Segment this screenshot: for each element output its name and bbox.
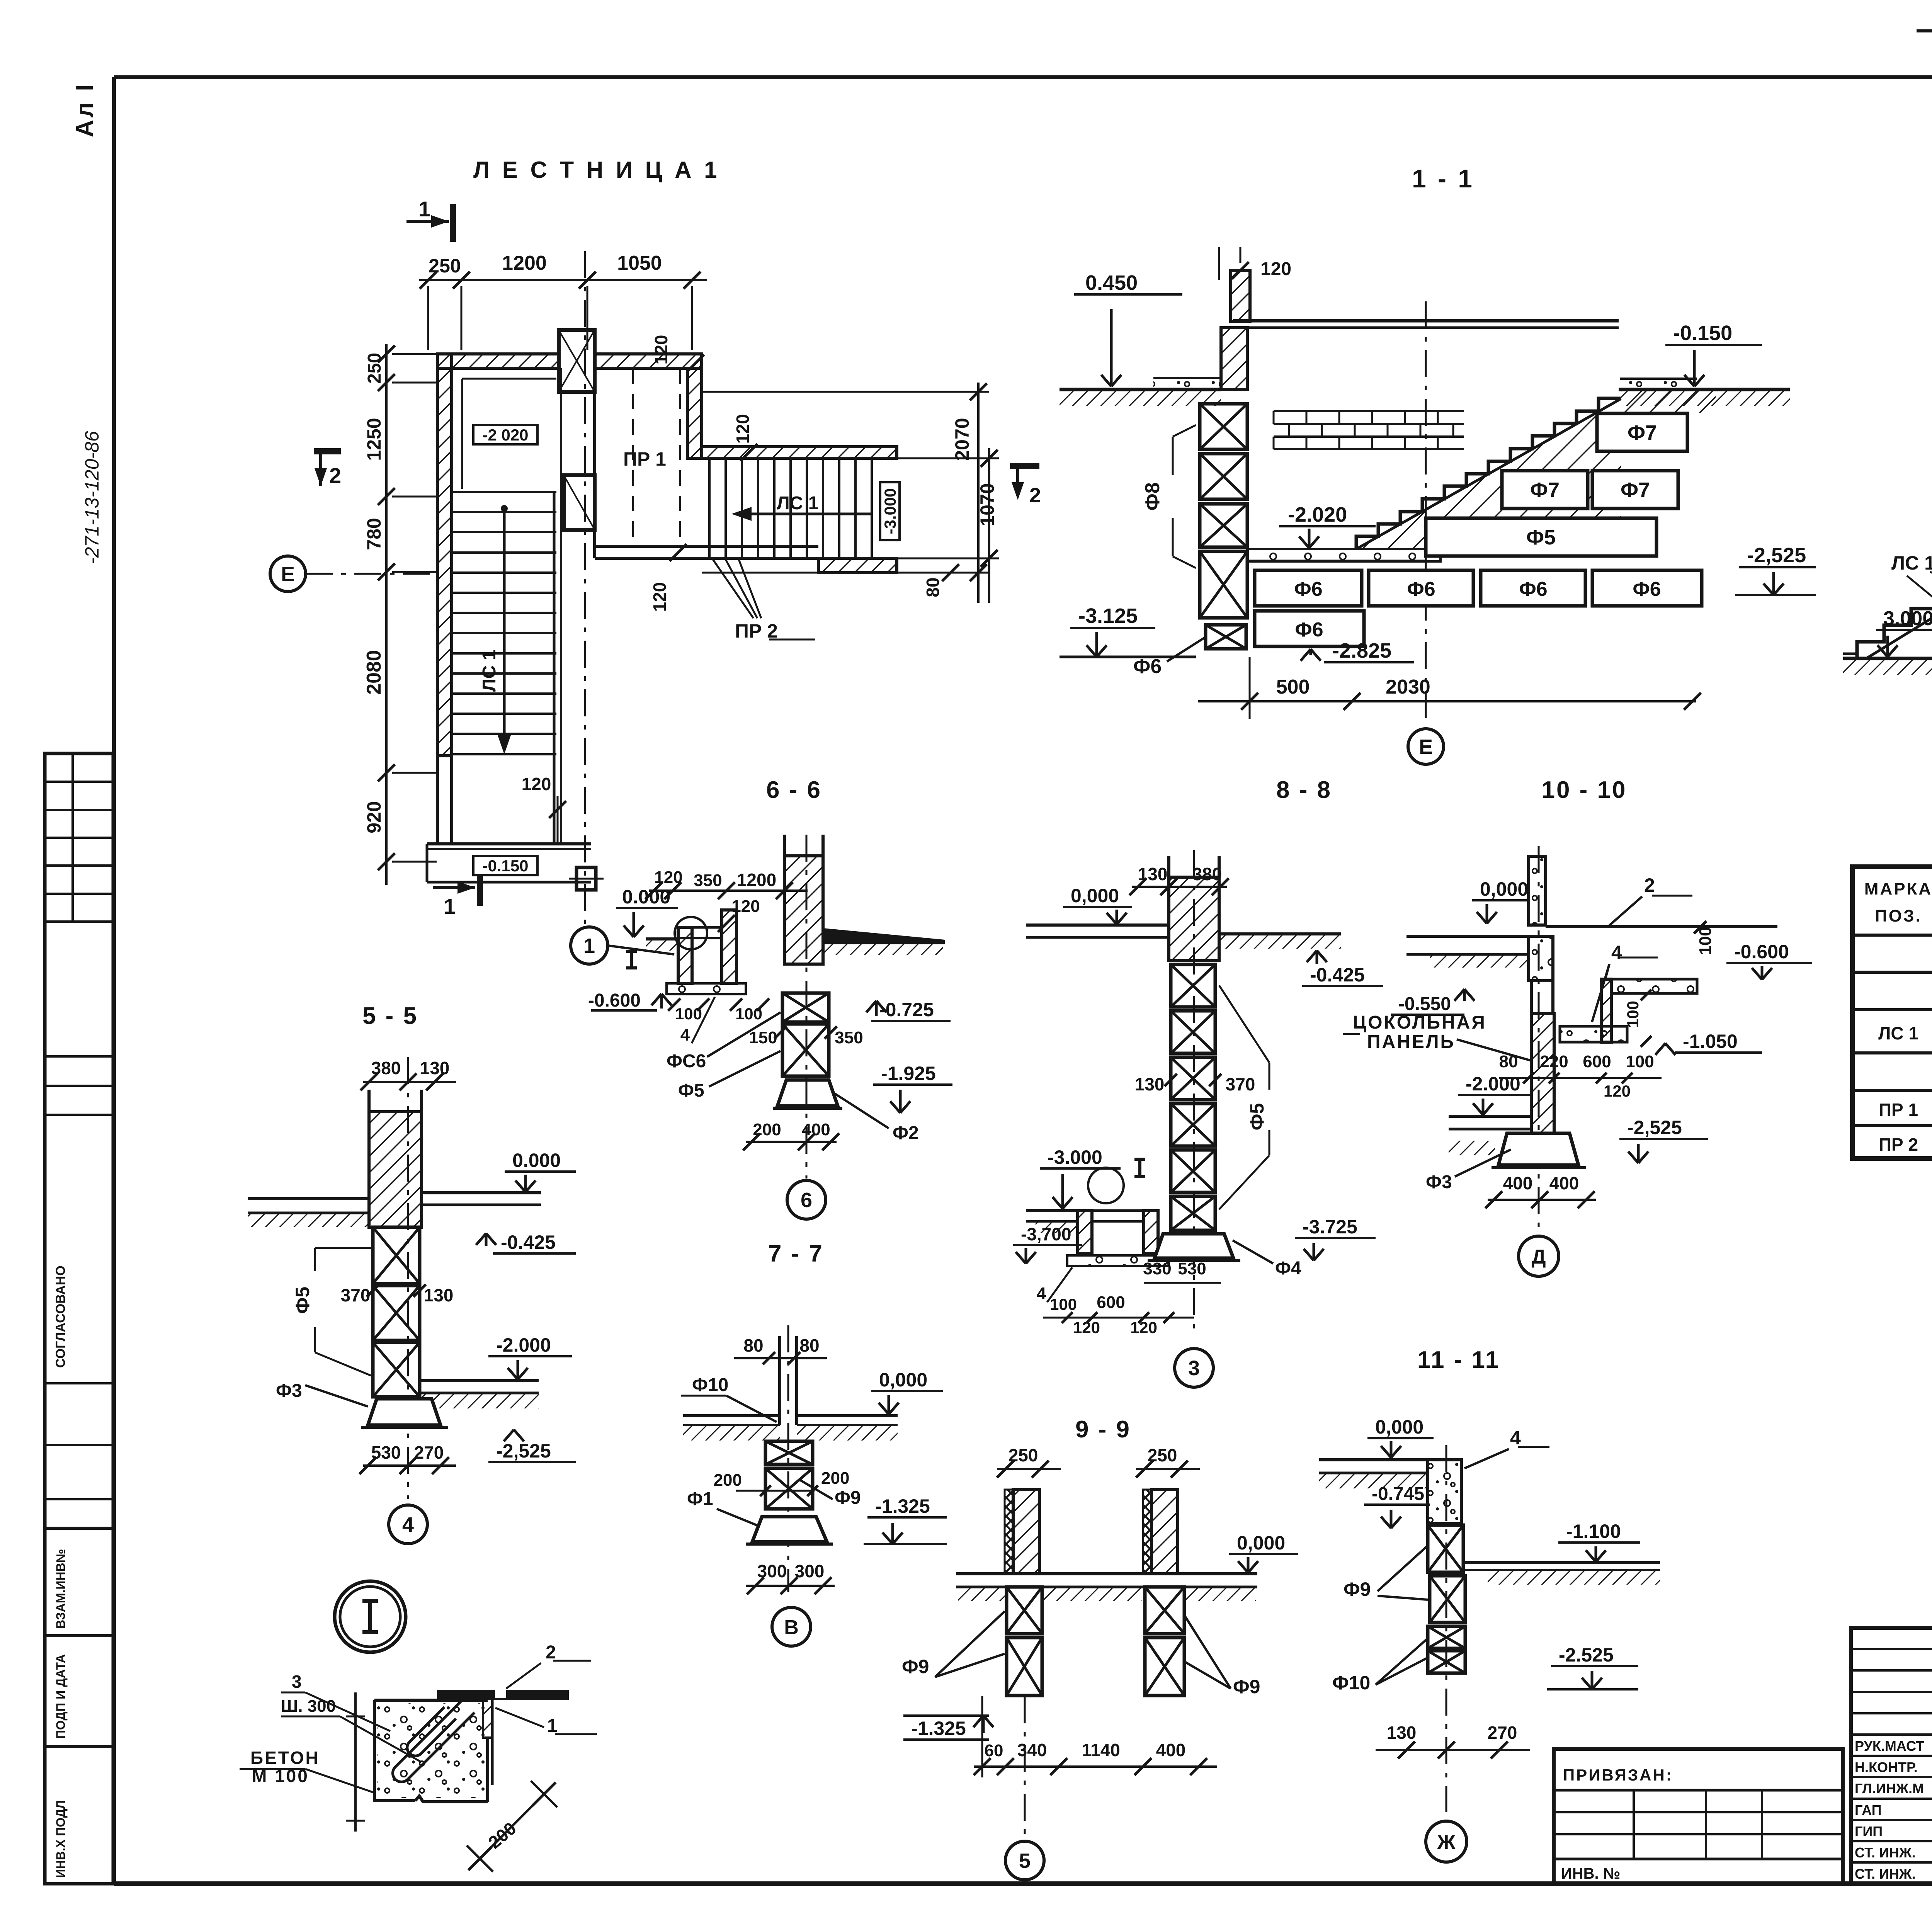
svg-text:-0.600: -0.600 <box>588 990 641 1011</box>
svg-text:Ф9: Ф9 <box>1233 1676 1260 1697</box>
section 8-8 top dims 130 380 <box>1132 886 1227 888</box>
section 10-10 axis circle Д <box>1519 1236 1559 1276</box>
svg-text:ЛС 1: ЛС 1 <box>1878 1023 1918 1043</box>
svg-text:ЛС 1: ЛС 1 <box>1891 552 1932 574</box>
section 7-7 footing Ф1 <box>752 1517 827 1542</box>
section 8-8 footing Ф4 <box>1155 1234 1233 1258</box>
section 1-1 bottom dims 500 2030 <box>1198 700 1696 702</box>
section 7-7 floor slabs <box>683 1414 780 1417</box>
section 1-1 parapet wall <box>1231 270 1250 321</box>
svg-text:-2.825: -2.825 <box>1332 639 1391 662</box>
section 7-7 foundation blocks <box>765 1441 813 1464</box>
section 6-6 bottom dims 200 400 <box>746 1141 837 1143</box>
svg-text:300: 300 <box>757 1561 787 1581</box>
section 1-1 basement floor speckled <box>1247 549 1440 561</box>
svg-text:-1.925: -1.925 <box>881 1063 936 1084</box>
section 8-8 ground right <box>1219 932 1341 935</box>
svg-text:Ф8: Ф8 <box>1141 482 1164 510</box>
svg-text:120: 120 <box>1260 259 1291 279</box>
section 2-2 entrance stair steps <box>1857 559 1932 658</box>
svg-text:250: 250 <box>364 353 385 384</box>
detail I concrete block <box>240 1642 597 1872</box>
section 1-1 ground left <box>1060 388 1221 391</box>
svg-text:250: 250 <box>1009 1445 1038 1465</box>
section 10-10 left slab <box>1406 935 1529 938</box>
svg-text:-0.150: -0.150 <box>482 857 528 875</box>
svg-text:ПР 1: ПР 1 <box>1879 1100 1918 1120</box>
svg-text:-0.425: -0.425 <box>501 1231 556 1253</box>
svg-text:100: 100 <box>735 1005 762 1023</box>
svg-text:0,000: 0,000 <box>879 1369 927 1391</box>
svg-text:Ф7: Ф7 <box>1530 478 1560 502</box>
svg-text:Ф3: Ф3 <box>276 1381 302 1401</box>
svg-text:ЦОКОЛЬНАЯ: ЦОКОЛЬНАЯ <box>1353 1012 1486 1033</box>
svg-text:-3.725: -3.725 <box>1303 1216 1357 1238</box>
section 5-5 wall <box>369 1112 422 1227</box>
section 5-5 foundation blocks <box>373 1227 420 1284</box>
svg-text:370: 370 <box>1226 1074 1255 1094</box>
svg-text:СТ. ИНЖ.: СТ. ИНЖ. <box>1855 1845 1915 1861</box>
plan label ПР2 with leaders <box>713 560 815 642</box>
section 10-10 bottom dims 400 400 <box>1488 1199 1596 1201</box>
svg-text:80: 80 <box>743 1335 763 1355</box>
svg-text:Ф10: Ф10 <box>1332 1672 1370 1694</box>
plan level box -0.150 <box>473 856 537 875</box>
svg-text:ВЗАМ.ИНВ№: ВЗАМ.ИНВ№ <box>54 1549 68 1629</box>
svg-text:ГЛ.ИНЖ.М: ГЛ.ИНЖ.М <box>1855 1781 1924 1796</box>
svg-text:530: 530 <box>1178 1259 1206 1278</box>
svg-text:-0.550: -0.550 <box>1398 994 1451 1014</box>
section 9-9 floor slab <box>956 1572 1257 1575</box>
svg-text:В: В <box>784 1616 799 1639</box>
svg-text:РУК.МАСТ: РУК.МАСТ <box>1855 1738 1924 1754</box>
svg-text:-3.000: -3.000 <box>881 488 899 534</box>
svg-text:0,000: 0,000 <box>1375 1416 1423 1438</box>
section 11-11 axis circle Ж <box>1426 1821 1467 1862</box>
svg-text:-3.000: -3.000 <box>1048 1146 1102 1168</box>
spec table grid <box>1852 867 1932 1158</box>
svg-text:Ф7: Ф7 <box>1628 421 1657 444</box>
section 10-10 upper thin wall <box>1529 856 1546 925</box>
section 8-8 left slab <box>1026 923 1169 927</box>
plan section mark 1 bottom <box>433 870 480 918</box>
svg-text:ФС6: ФС6 <box>667 1051 706 1071</box>
svg-text:2030: 2030 <box>1386 676 1430 698</box>
svg-text:100: 100 <box>1050 1295 1077 1313</box>
section 6-6 main wall <box>784 856 823 964</box>
svg-text:ГИП: ГИП <box>1855 1823 1883 1839</box>
section 1-1 block Ф7 mid-right <box>1592 471 1678 509</box>
svg-text:330: 330 <box>1143 1259 1171 1278</box>
svg-text:Ф1: Ф1 <box>687 1489 713 1509</box>
detail I vertical edge line <box>354 1692 357 1832</box>
svg-text:130: 130 <box>420 1058 450 1078</box>
svg-text:-2.020: -2.020 <box>1288 503 1347 526</box>
section 5-5 lower right slab <box>420 1379 539 1382</box>
plan axis circle E <box>270 556 437 592</box>
svg-text:600: 600 <box>1097 1293 1125 1312</box>
svg-text:350: 350 <box>835 1028 863 1047</box>
svg-text:6: 6 <box>801 1189 812 1212</box>
svg-text:2: 2 <box>546 1642 556 1663</box>
section 8-8 axis circle 3 <box>1175 1349 1213 1387</box>
svg-text:500: 500 <box>1276 676 1310 698</box>
svg-text:2: 2 <box>1029 484 1041 507</box>
svg-text:130: 130 <box>424 1285 454 1305</box>
svg-text:130: 130 <box>1135 1074 1165 1094</box>
svg-text:80: 80 <box>1499 1052 1518 1071</box>
svg-text:400: 400 <box>1156 1740 1186 1760</box>
section 1-1 block Ф5 <box>1426 518 1656 556</box>
svg-text:Е: Е <box>1419 735 1433 759</box>
svg-text:-2,525: -2,525 <box>1747 544 1806 567</box>
svg-text:ИНВ.Х ПОДЛ: ИНВ.Х ПОДЛ <box>54 1800 68 1878</box>
svg-text:ПАНЕЛЬ: ПАНЕЛЬ <box>1367 1032 1455 1052</box>
section 10-10 wall panel <box>1529 936 1553 981</box>
plan level box -2.020 <box>473 425 537 444</box>
section 6-6 footing Ф2 <box>777 1080 838 1106</box>
svg-text:400: 400 <box>1549 1173 1579 1193</box>
svg-text:120: 120 <box>650 582 670 612</box>
svg-text:1 - 1: 1 - 1 <box>1412 164 1475 193</box>
section 1-1 top slab <box>1233 319 1619 323</box>
section 1-1 foundation blocks Ф8 <box>1200 404 1247 449</box>
svg-text:Л Е С Т Н И Ц А 1: Л Е С Т Н И Ц А 1 <box>473 157 720 183</box>
svg-text:Ф10: Ф10 <box>692 1375 728 1395</box>
svg-text:5 - 5: 5 - 5 <box>362 1003 418 1029</box>
section 6-6 detail circle <box>675 917 707 949</box>
section 7-7 column <box>778 1336 781 1425</box>
svg-text:ПОДП И ДАТА: ПОДП И ДАТА <box>54 1654 68 1739</box>
svg-text:80: 80 <box>923 577 943 597</box>
svg-text:0.000: 0.000 <box>512 1150 561 1171</box>
svg-text:120: 120 <box>733 414 753 444</box>
svg-text:СТ. ИНЖ.: СТ. ИНЖ. <box>1855 1866 1915 1882</box>
section 9-9 top dims 250 250 <box>997 1468 1061 1470</box>
svg-text:380: 380 <box>371 1058 401 1078</box>
section 8-8 lower-left pit <box>1026 1209 1078 1212</box>
svg-text:250: 250 <box>1148 1445 1177 1465</box>
svg-text:ПР 1: ПР 1 <box>623 448 666 470</box>
svg-text:4: 4 <box>402 1513 414 1536</box>
svg-text:Ф9: Ф9 <box>1344 1578 1371 1600</box>
detail I diagonal dim 200 <box>480 1794 544 1859</box>
section 11-11 bottom dims 130 270 <box>1376 1749 1530 1751</box>
svg-text:200: 200 <box>714 1471 742 1490</box>
plan axis line vertical <box>584 251 586 947</box>
svg-text:-1.325: -1.325 <box>911 1718 966 1739</box>
section 11-11 axis <box>1446 1445 1447 1812</box>
plan pier column top <box>559 330 595 392</box>
section 1-1 ground right <box>1619 388 1790 391</box>
plan landing edge middle <box>595 368 818 558</box>
svg-text:Н.КОНТР.: Н.КОНТР. <box>1855 1759 1918 1775</box>
detail I steel plate top <box>437 1690 495 1699</box>
svg-text:3.000: 3.000 <box>1883 607 1932 630</box>
svg-text:11 - 11: 11 - 11 <box>1417 1347 1500 1373</box>
svg-text:200: 200 <box>753 1120 781 1139</box>
section 1-1 block Ф7 top <box>1597 413 1687 451</box>
svg-text:-0.725: -0.725 <box>879 999 934 1020</box>
svg-text:Ф6: Ф6 <box>1519 578 1547 600</box>
svg-text:6 - 6: 6 - 6 <box>766 777 822 803</box>
section 6-6 foundation blocks <box>782 993 829 1022</box>
svg-text:Ф7: Ф7 <box>1621 478 1650 502</box>
svg-text:МАРКА: МАРКА <box>1864 879 1932 898</box>
plan landing slab bottom <box>427 844 591 882</box>
svg-text:Ф5: Ф5 <box>1246 1103 1268 1130</box>
svg-text:8 - 8: 8 - 8 <box>1276 777 1332 803</box>
svg-text:-1.100: -1.100 <box>1566 1520 1621 1542</box>
plan upper flight treads ЛС1 <box>709 458 872 558</box>
svg-text:БЕТОН: БЕТОН <box>250 1748 320 1768</box>
section 11-11 right floor <box>1463 1561 1660 1564</box>
svg-text:2: 2 <box>329 463 341 488</box>
svg-text:4: 4 <box>1510 1427 1521 1449</box>
svg-text:600: 600 <box>1583 1052 1611 1071</box>
section 1-1 block Ф6 lower <box>1255 611 1364 646</box>
svg-text:100: 100 <box>1624 1001 1642 1028</box>
svg-text:0.450: 0.450 <box>1085 271 1138 294</box>
section 1-1 left wall <box>1221 328 1247 389</box>
svg-text:3: 3 <box>292 1672 302 1692</box>
svg-text:Ф5: Ф5 <box>292 1287 313 1314</box>
svg-text:-3,700: -3,700 <box>1021 1224 1071 1244</box>
section 1-1 block Ф7 mid-left <box>1502 471 1588 509</box>
plan left dimension chain <box>363 344 437 885</box>
svg-text:270: 270 <box>414 1442 444 1463</box>
section 10-10 axis <box>1538 846 1540 1233</box>
title block privyazan table <box>1554 1749 1843 1884</box>
svg-text:-2.000: -2.000 <box>1466 1073 1520 1095</box>
svg-text:400: 400 <box>1503 1173 1533 1193</box>
svg-text:100: 100 <box>1626 1052 1654 1071</box>
section 5-5 footing Ф3 <box>368 1399 440 1425</box>
section 11-11 foundation blocks <box>1428 1525 1463 1572</box>
plan level box -3.000 rotated <box>880 482 900 540</box>
svg-text:1: 1 <box>418 197 430 221</box>
section 1-1 axis E <box>1425 301 1427 726</box>
plan walls <box>437 354 897 844</box>
plan lower flight treads ЛС1 <box>452 368 561 844</box>
section 1-1 section mark 2 <box>1010 463 1039 469</box>
svg-text:1200: 1200 <box>737 870 776 890</box>
svg-text:-1.050: -1.050 <box>1683 1031 1738 1052</box>
svg-text:120: 120 <box>1130 1318 1157 1337</box>
section 11-11 floor slab <box>1319 1458 1428 1461</box>
section 5-5 right slab <box>422 1191 541 1194</box>
section 6-6 top dims <box>649 889 808 892</box>
detail I anchor loop rebar <box>393 1700 474 1782</box>
svg-text:0,000: 0,000 <box>1480 878 1528 900</box>
svg-text:1250: 1250 <box>363 418 385 461</box>
svg-text:ПРИВЯЗАН:: ПРИВЯЗАН: <box>1563 1766 1673 1784</box>
section 10-10 lower left slab <box>1449 1115 1531 1118</box>
svg-text:270: 270 <box>1488 1723 1517 1743</box>
section 9-9 axis circle 5 <box>1024 1696 1026 1837</box>
svg-text:340: 340 <box>1017 1740 1047 1760</box>
svg-text:120: 120 <box>1073 1318 1100 1337</box>
detail mark I big circle <box>335 1581 406 1652</box>
svg-text:1: 1 <box>547 1716 558 1736</box>
section 5-5 top dims 380 130 <box>363 1081 456 1083</box>
svg-text:3: 3 <box>1188 1357 1200 1380</box>
svg-text:Е: Е <box>281 563 295 586</box>
section 10-10 footing Ф3 <box>1498 1133 1578 1165</box>
svg-text:Ф6: Ф6 <box>1633 578 1661 600</box>
svg-text:780: 780 <box>363 518 385 550</box>
svg-text:130: 130 <box>1138 864 1168 884</box>
svg-text:530: 530 <box>371 1442 401 1463</box>
svg-text:0,000: 0,000 <box>1071 885 1119 906</box>
svg-text:-2.525: -2.525 <box>1559 1644 1614 1666</box>
svg-text:1140: 1140 <box>1082 1740 1120 1760</box>
svg-text:Ф5: Ф5 <box>1526 526 1556 549</box>
section 9-9 bottom dims <box>974 1765 1217 1768</box>
svg-text:9 - 9: 9 - 9 <box>1075 1416 1131 1443</box>
svg-text:120: 120 <box>654 868 682 887</box>
svg-text:-2 020: -2 020 <box>482 426 528 444</box>
svg-text:1070: 1070 <box>976 483 998 526</box>
section 5-5 axis <box>407 1057 409 1499</box>
svg-text:120: 120 <box>522 774 551 794</box>
section 1-1 brick wall <box>1274 410 1464 412</box>
svg-text:Ш. 300: Ш. 300 <box>281 1697 336 1716</box>
svg-text:80: 80 <box>799 1335 819 1355</box>
section 10-10 right floor line <box>1546 925 1777 928</box>
svg-text:10 - 10: 10 - 10 <box>1541 777 1627 803</box>
svg-text:4: 4 <box>1611 942 1622 963</box>
svg-text:300: 300 <box>795 1561 825 1581</box>
section 2-2 ground line under steps <box>1843 657 1932 660</box>
svg-text:-0.150: -0.150 <box>1673 321 1732 345</box>
svg-text:1: 1 <box>583 934 595 957</box>
svg-text:0,000: 0,000 <box>1237 1532 1285 1554</box>
svg-text:100: 100 <box>1696 927 1715 955</box>
plan pier stub bottom <box>569 867 604 890</box>
margin stamp column <box>45 82 113 1884</box>
svg-text:Ф6: Ф6 <box>1294 578 1322 600</box>
svg-text:0.000: 0.000 <box>622 886 670 908</box>
svg-text:120: 120 <box>651 335 671 365</box>
svg-text:150: 150 <box>749 1028 777 1047</box>
svg-text:Ф5: Ф5 <box>678 1080 704 1101</box>
svg-text:1: 1 <box>444 894 456 918</box>
svg-text:-271-13-120-86: -271-13-120-86 <box>81 431 103 564</box>
svg-text:2: 2 <box>1644 874 1655 896</box>
svg-text:250: 250 <box>429 255 461 277</box>
svg-text:-2,525: -2,525 <box>496 1440 551 1462</box>
section 1-1 stair steps <box>1356 398 1621 549</box>
section 7-7 axis circle В <box>772 1607 811 1646</box>
svg-text:1050: 1050 <box>617 252 662 274</box>
svg-text:-0.425: -0.425 <box>1310 964 1365 986</box>
svg-text:Ф6: Ф6 <box>1295 619 1323 641</box>
svg-text:920: 920 <box>363 801 385 833</box>
svg-text:-2,525: -2,525 <box>1627 1117 1682 1138</box>
section 11-11 wall <box>1428 1460 1461 1524</box>
svg-text:ЛС 1: ЛС 1 <box>479 650 500 692</box>
svg-text:60: 60 <box>985 1741 1003 1760</box>
svg-text:Ал I: Ал I <box>71 82 98 137</box>
svg-text:Ф4: Ф4 <box>1275 1258 1301 1279</box>
plan pier column middle <box>564 475 595 530</box>
svg-text:130: 130 <box>1387 1723 1417 1743</box>
section 8-8 wall <box>1169 877 1219 961</box>
section 1-1 blocks Ф6 row <box>1255 570 1362 606</box>
detail I corner angle hatched <box>483 1699 492 1738</box>
svg-text:-3.125: -3.125 <box>1078 604 1138 628</box>
svg-text:Ф2: Ф2 <box>893 1123 919 1143</box>
plan 120 dimension callouts <box>522 335 757 844</box>
svg-text:Ф6: Ф6 <box>1133 655 1162 678</box>
svg-text:Д: Д <box>1531 1246 1546 1268</box>
svg-text:120: 120 <box>1604 1082 1631 1100</box>
section 6-6 axis circle 6 <box>806 835 808 1179</box>
title block signature table <box>1851 1628 1932 1884</box>
section 6-6 ground right with wedge <box>823 928 945 943</box>
svg-text:4: 4 <box>680 1026 690 1044</box>
section 6-6 left step structure <box>678 927 692 983</box>
section 8-8 foundation blocks <box>1171 964 1215 1007</box>
section 5-5 bottom dims 530 270 <box>363 1464 456 1467</box>
svg-text:7 - 7: 7 - 7 <box>768 1240 824 1267</box>
section 9-9 foundation blocks <box>1007 1587 1042 1634</box>
svg-text:Ф6: Ф6 <box>1407 578 1435 600</box>
svg-text:220: 220 <box>1540 1052 1568 1071</box>
svg-text:350: 350 <box>694 871 722 890</box>
svg-text:Ф9: Ф9 <box>835 1488 861 1508</box>
svg-text:2070: 2070 <box>951 418 973 461</box>
svg-text:-2.000: -2.000 <box>496 1334 551 1356</box>
plan section mark 2 left <box>314 451 341 488</box>
svg-text:ПОЗ.: ПОЗ. <box>1875 906 1922 925</box>
section 6-6 axis circle 1 <box>571 927 608 964</box>
plan right dimension chains <box>702 383 999 603</box>
section 6-6 ground left <box>646 937 678 940</box>
svg-text:2080: 2080 <box>363 650 385 695</box>
svg-text:5: 5 <box>1019 1849 1031 1872</box>
section 5-5 axis circle 4 <box>389 1505 427 1544</box>
svg-text:370: 370 <box>341 1285 371 1305</box>
svg-text:1200: 1200 <box>502 252 547 274</box>
svg-text:ЛС 1: ЛС 1 <box>777 493 818 514</box>
section 7-7 dims 80 80 <box>734 1357 827 1359</box>
svg-text:Ф3: Ф3 <box>1426 1172 1452 1192</box>
plan lintel ПР1 dashed opening <box>623 368 680 546</box>
section 5-5 left slab <box>248 1197 369 1200</box>
svg-text:4: 4 <box>1037 1284 1046 1303</box>
section 9-9 walls <box>1005 1490 1013 1574</box>
section 1-1 under-stair hatched mass <box>1354 399 1621 549</box>
svg-text:ИНВ. №: ИНВ. № <box>1561 1865 1620 1882</box>
svg-text:Ф9: Ф9 <box>902 1656 929 1677</box>
svg-text:-0.600: -0.600 <box>1734 941 1789 963</box>
svg-text:-0.745: -0.745 <box>1372 1484 1424 1504</box>
svg-text:Ж: Ж <box>1437 1831 1456 1854</box>
svg-text:200: 200 <box>821 1469 849 1488</box>
plan section mark 1 top <box>406 197 453 242</box>
section 10-10 shelf piece <box>1601 979 1611 1042</box>
section 7-7 bottom dims 300 300 <box>746 1585 835 1587</box>
svg-text:-1.325: -1.325 <box>875 1495 930 1517</box>
svg-text:100: 100 <box>675 1005 702 1023</box>
svg-text:СОГЛАСОВАНО: СОГЛАСОВАНО <box>53 1265 68 1368</box>
svg-text:ПР 2: ПР 2 <box>1879 1134 1918 1155</box>
svg-text:ГАП: ГАП <box>1855 1802 1882 1818</box>
plan title ЛЕСТНИЦА 1 <box>473 157 720 183</box>
plan top dimension chain 250-1200-1050 <box>419 252 707 350</box>
